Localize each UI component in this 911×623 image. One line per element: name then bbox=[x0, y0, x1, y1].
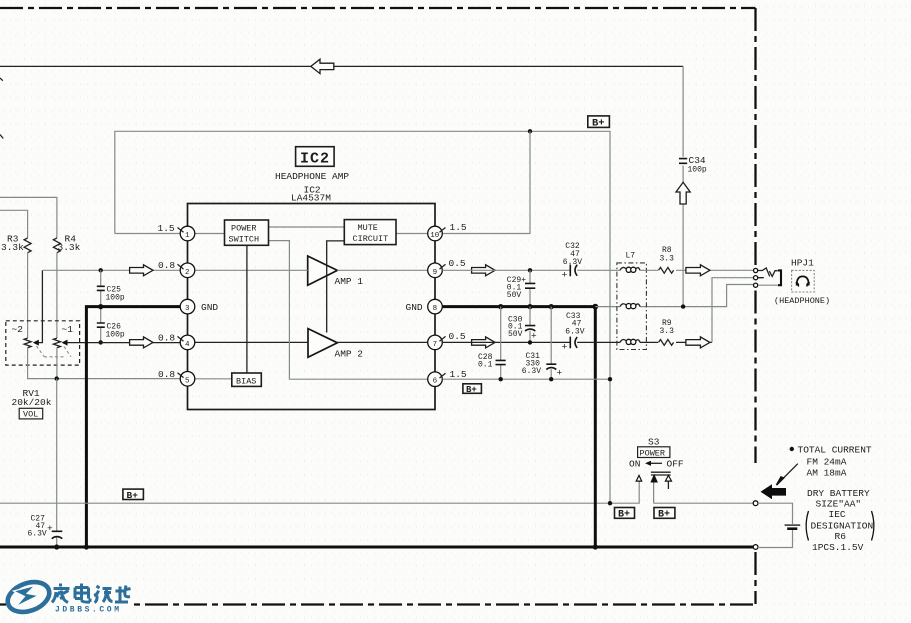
wire row6 to B+ vertical bbox=[443, 378, 611, 380]
svg-text:IEC: IEC bbox=[829, 509, 846, 520]
wire GND thick left bbox=[86, 307, 181, 547]
pin 2 bbox=[158, 260, 195, 278]
svg-text:B+: B+ bbox=[592, 117, 605, 129]
bias box bbox=[232, 373, 261, 386]
svg-text:0.5: 0.5 bbox=[449, 258, 466, 269]
svg-text:+: + bbox=[557, 368, 563, 379]
svg-text:50V: 50V bbox=[507, 291, 522, 300]
node B+ vertical end bbox=[608, 501, 612, 505]
svg-text:S3: S3 bbox=[648, 437, 660, 448]
resistor R9 bbox=[659, 319, 675, 345]
resistor R8 bbox=[659, 246, 675, 273]
node row6/C28 bbox=[499, 377, 503, 381]
wire bottom ground thick bbox=[0, 546, 753, 549]
internal wire power switch to bias bbox=[246, 245, 248, 373]
dry battery note bbox=[806, 488, 874, 553]
svg-text:50V: 50V bbox=[508, 330, 523, 339]
node GND/C31 bbox=[549, 304, 554, 309]
capacitor C30 bbox=[508, 316, 537, 342]
wire pin1 feed bbox=[115, 233, 180, 235]
arrow row4 bbox=[130, 337, 153, 348]
wire bottom B+ line bbox=[0, 481, 753, 503]
border top bbox=[0, 7, 756, 9]
arrow left on top line bbox=[311, 59, 334, 73]
svg-text:+: + bbox=[47, 523, 53, 534]
wire R4 to pot bbox=[56, 253, 58, 338]
arrow up on C34 branch bbox=[676, 182, 690, 204]
B+ label box top bbox=[588, 116, 610, 128]
B+ label box S3 left bbox=[615, 508, 635, 519]
wire wiper2 from row2 bbox=[38, 270, 42, 342]
node GND/C34 bbox=[681, 304, 685, 308]
border right bbox=[754, 8, 756, 265]
svg-text:POWER: POWER bbox=[640, 449, 666, 459]
wire R9 to jack ring bbox=[676, 341, 712, 343]
wire C29 column bbox=[529, 270, 531, 306]
op-amp AMP 2 bbox=[308, 329, 363, 360]
pin 1 bbox=[158, 223, 195, 241]
svg-text:R6: R6 bbox=[835, 531, 847, 542]
svg-text:POWER: POWER bbox=[231, 224, 257, 234]
wire top signal line bbox=[0, 65, 683, 67]
op-amp AMP 1 bbox=[308, 256, 364, 287]
wire pot bottoms to row5 bbox=[28, 348, 180, 379]
node pin8 GND vertical bottom bbox=[593, 544, 598, 549]
svg-text:6.3V: 6.3V bbox=[522, 367, 541, 376]
battery R6 bbox=[753, 501, 800, 550]
svg-text:SWITCH: SWITCH bbox=[229, 235, 260, 245]
svg-text:6.3V: 6.3V bbox=[565, 328, 584, 337]
internal wire row2 to amp1 bbox=[195, 269, 428, 271]
pin 9 bbox=[428, 258, 466, 278]
svg-text:C34: C34 bbox=[689, 155, 706, 166]
internal wire mute to pin10 bbox=[396, 233, 428, 235]
svg-text:+: + bbox=[562, 270, 568, 281]
svg-text:AMP 2: AMP 2 bbox=[335, 349, 364, 360]
svg-text:SIZE"AA": SIZE"AA" bbox=[816, 499, 862, 510]
internal wire row4 to amp2 bbox=[195, 341, 428, 343]
svg-text:ON: ON bbox=[629, 459, 640, 470]
wire C26 column bbox=[100, 307, 102, 343]
pin 6 bbox=[428, 369, 467, 387]
arrow row2 bbox=[130, 265, 153, 276]
capacitor C32 bbox=[562, 242, 583, 281]
resistor R3 bbox=[1, 234, 31, 254]
wire L7 to R8 bbox=[640, 269, 658, 271]
arrow R9 out bbox=[686, 337, 710, 348]
inductor L7 winding row9 bbox=[620, 267, 640, 272]
capacitor C26 bbox=[97, 323, 125, 340]
wire R4 feed bbox=[0, 197, 57, 238]
svg-text:3.3k: 3.3k bbox=[58, 242, 81, 253]
svg-text:1.5: 1.5 bbox=[450, 369, 467, 380]
svg-text:FM 24mA: FM 24mA bbox=[807, 457, 847, 468]
internal wire mute control bbox=[327, 241, 345, 333]
resistor R4 bbox=[53, 234, 80, 254]
svg-text:+: + bbox=[562, 342, 568, 353]
node GND corner bbox=[592, 304, 598, 310]
wire C31 column bbox=[550, 307, 552, 380]
wire row4 left bbox=[88, 342, 180, 344]
capacitor C29 bbox=[507, 276, 536, 300]
svg-text:JDBBS.COM: JDBBS.COM bbox=[55, 606, 122, 615]
svg-text:1.5: 1.5 bbox=[450, 222, 467, 233]
svg-text:OFF: OFF bbox=[667, 459, 684, 470]
wire C30 column bbox=[529, 307, 531, 343]
svg-text:B+: B+ bbox=[618, 510, 630, 521]
capacitor C25 bbox=[97, 286, 125, 303]
potentiometer RV1 element 1 bbox=[53, 338, 60, 348]
pin 4 bbox=[158, 333, 195, 350]
arrow row7 bbox=[472, 337, 496, 348]
svg-text:20k/20k: 20k/20k bbox=[12, 397, 52, 408]
node row6/C31 bbox=[549, 377, 553, 381]
svg-text:TOTAL CURRENT: TOTAL CURRENT bbox=[798, 445, 872, 456]
svg-text:4: 4 bbox=[185, 341, 190, 349]
node row2/C25 bbox=[99, 268, 103, 272]
switch S3 bbox=[629, 437, 684, 490]
B+ label box S3 right bbox=[654, 508, 675, 519]
svg-text:6.3V: 6.3V bbox=[563, 258, 582, 267]
border bottom bbox=[0, 603, 753, 605]
capacitor C28 bbox=[478, 353, 506, 370]
capacitor C34 bbox=[679, 155, 707, 175]
svg-text:3.3: 3.3 bbox=[660, 327, 675, 336]
svg-text:MUTE: MUTE bbox=[358, 223, 378, 233]
capacitor C27 bbox=[28, 515, 63, 539]
svg-text:0.8: 0.8 bbox=[158, 369, 175, 380]
wire pin10 to B+ rail bbox=[443, 131, 531, 233]
svg-text:0.1: 0.1 bbox=[478, 361, 493, 370]
svg-text:HPJ1: HPJ1 bbox=[791, 258, 814, 269]
svg-text:~2: ~2 bbox=[12, 324, 24, 335]
wire row9 to C32 bbox=[443, 269, 570, 271]
svg-text:HEADPHONE AMP: HEADPHONE AMP bbox=[275, 171, 349, 182]
svg-text:1PCS.1.5V: 1PCS.1.5V bbox=[812, 542, 864, 553]
wire R8 to jack bbox=[676, 269, 753, 271]
wire pin8 GND vertical bbox=[594, 307, 597, 547]
wire GND to L7 row bbox=[595, 285, 753, 307]
svg-text:GND: GND bbox=[406, 302, 423, 313]
svg-text:CIRCUIT: CIRCUIT bbox=[353, 234, 389, 244]
capacitor C33 bbox=[562, 312, 585, 353]
node C26 top bbox=[98, 304, 103, 309]
svg-text:DRY BATTERY: DRY BATTERY bbox=[807, 488, 870, 499]
svg-text:100p: 100p bbox=[106, 294, 125, 303]
svg-text:VOL: VOL bbox=[23, 410, 38, 420]
pointer arrow line bbox=[780, 464, 798, 482]
power switch box U-PSW bbox=[225, 220, 269, 245]
wire C27 column bbox=[56, 379, 58, 547]
mute circuit box bbox=[344, 220, 396, 245]
svg-text:+: + bbox=[531, 331, 537, 342]
big arrow dry battery bbox=[761, 484, 787, 499]
IC2 title box bbox=[296, 147, 335, 167]
inductor L7 winding row7 bbox=[620, 339, 640, 344]
internal wire power switch to mute bbox=[269, 226, 345, 228]
svg-text:3: 3 bbox=[185, 305, 190, 313]
svg-text:BIAS: BIAS bbox=[236, 377, 256, 387]
svg-text:LA4537M: LA4537M bbox=[291, 193, 331, 204]
svg-text:3.3k: 3.3k bbox=[1, 242, 24, 253]
logo jdbbs bbox=[4, 577, 132, 618]
node row9/C29 bbox=[528, 268, 532, 272]
pin 5 bbox=[158, 369, 195, 386]
svg-text:6: 6 bbox=[433, 378, 438, 386]
wire stub left bbox=[0, 135, 3, 139]
wire GND thick right bbox=[443, 305, 596, 308]
wire R3 feed bbox=[0, 210, 28, 238]
svg-text:1: 1 bbox=[185, 232, 190, 240]
capacitor C31 bbox=[522, 352, 563, 379]
pin 7 bbox=[428, 331, 466, 350]
wire wiper1 from row4 bbox=[67, 342, 88, 344]
internal wire pin5 to bias bbox=[195, 378, 232, 380]
svg-text:0.8: 0.8 bbox=[158, 333, 175, 344]
svg-text:(HEADPHONE): (HEADPHONE) bbox=[774, 296, 830, 306]
arrow R8 out bbox=[686, 265, 710, 276]
jack contacts HPJ1 bbox=[754, 268, 782, 287]
node GND/C29-C30 bbox=[527, 304, 532, 309]
wire row2 left bbox=[42, 269, 180, 271]
svg-text:AMP 1: AMP 1 bbox=[335, 276, 364, 287]
svg-text:2: 2 bbox=[185, 269, 190, 277]
wire row7 to C33 bbox=[443, 341, 570, 343]
pin 8 bbox=[406, 299, 443, 314]
node GND vertical bottom bbox=[84, 544, 89, 549]
node row7/C30 bbox=[528, 340, 532, 344]
wire C34 branch bbox=[682, 66, 684, 306]
total current note bbox=[790, 445, 872, 479]
svg-text:8: 8 bbox=[433, 305, 438, 313]
svg-text:0.8: 0.8 bbox=[158, 260, 175, 271]
svg-text:0.5: 0.5 bbox=[449, 331, 466, 342]
svg-text:100p: 100p bbox=[688, 166, 707, 175]
wire C33 to L7 bbox=[577, 341, 658, 343]
svg-text:DESIGNATION: DESIGNATION bbox=[811, 520, 874, 531]
internal wire power switch to pin6 rail bbox=[269, 241, 427, 380]
node row5 junction bbox=[55, 376, 59, 380]
arrow row9 bbox=[472, 265, 496, 276]
IC2 body bbox=[188, 204, 436, 410]
gang linkage dashed bbox=[37, 346, 72, 357]
svg-text:~1: ~1 bbox=[62, 324, 74, 335]
svg-text:B+: B+ bbox=[658, 510, 670, 521]
svg-text:7: 7 bbox=[433, 341, 438, 349]
wire stub top-left bbox=[0, 78, 3, 81]
node C26 bottom bbox=[99, 340, 103, 344]
B+ label box bottom-left bbox=[123, 489, 143, 499]
svg-text:10: 10 bbox=[430, 232, 440, 240]
inductor L7 winding gnd bbox=[620, 304, 640, 309]
svg-text:5: 5 bbox=[185, 377, 190, 385]
headphone jack label box bbox=[774, 258, 830, 307]
pin 3 bbox=[180, 299, 218, 314]
svg-text:3.3: 3.3 bbox=[660, 255, 675, 264]
potentiometer RV1 element 2 bbox=[24, 338, 31, 348]
wire B+ top rail bbox=[115, 131, 610, 503]
wire C28 column bbox=[500, 307, 502, 380]
node C27 bottom bbox=[54, 544, 59, 549]
node B+ rail junction bbox=[528, 129, 532, 133]
pin 10 bbox=[428, 222, 467, 241]
svg-text:1.5: 1.5 bbox=[158, 223, 175, 234]
svg-text:6.3V: 6.3V bbox=[28, 530, 47, 539]
node GND/C28 bbox=[498, 304, 503, 309]
internal wire pin1 to power switch bbox=[195, 233, 225, 235]
svg-text:L7: L7 bbox=[626, 252, 636, 261]
wire C32 to L7 bbox=[577, 269, 620, 271]
svg-text:B+: B+ bbox=[466, 385, 477, 395]
wire R3 to pot bbox=[27, 253, 29, 338]
svg-text:GND: GND bbox=[201, 302, 218, 313]
svg-text:AM 18mA: AM 18mA bbox=[807, 468, 847, 479]
svg-text:100p: 100p bbox=[106, 331, 125, 340]
svg-text:9: 9 bbox=[433, 269, 438, 277]
svg-text:IC2: IC2 bbox=[300, 151, 330, 168]
svg-text:B+: B+ bbox=[127, 490, 139, 501]
node row6/B+ bbox=[608, 377, 612, 381]
B+ label box row6 bbox=[463, 384, 482, 394]
potentiometer RV1 dashed box bbox=[6, 321, 80, 365]
wire C25 column bbox=[100, 270, 102, 306]
inductor L7 box bbox=[617, 263, 647, 350]
